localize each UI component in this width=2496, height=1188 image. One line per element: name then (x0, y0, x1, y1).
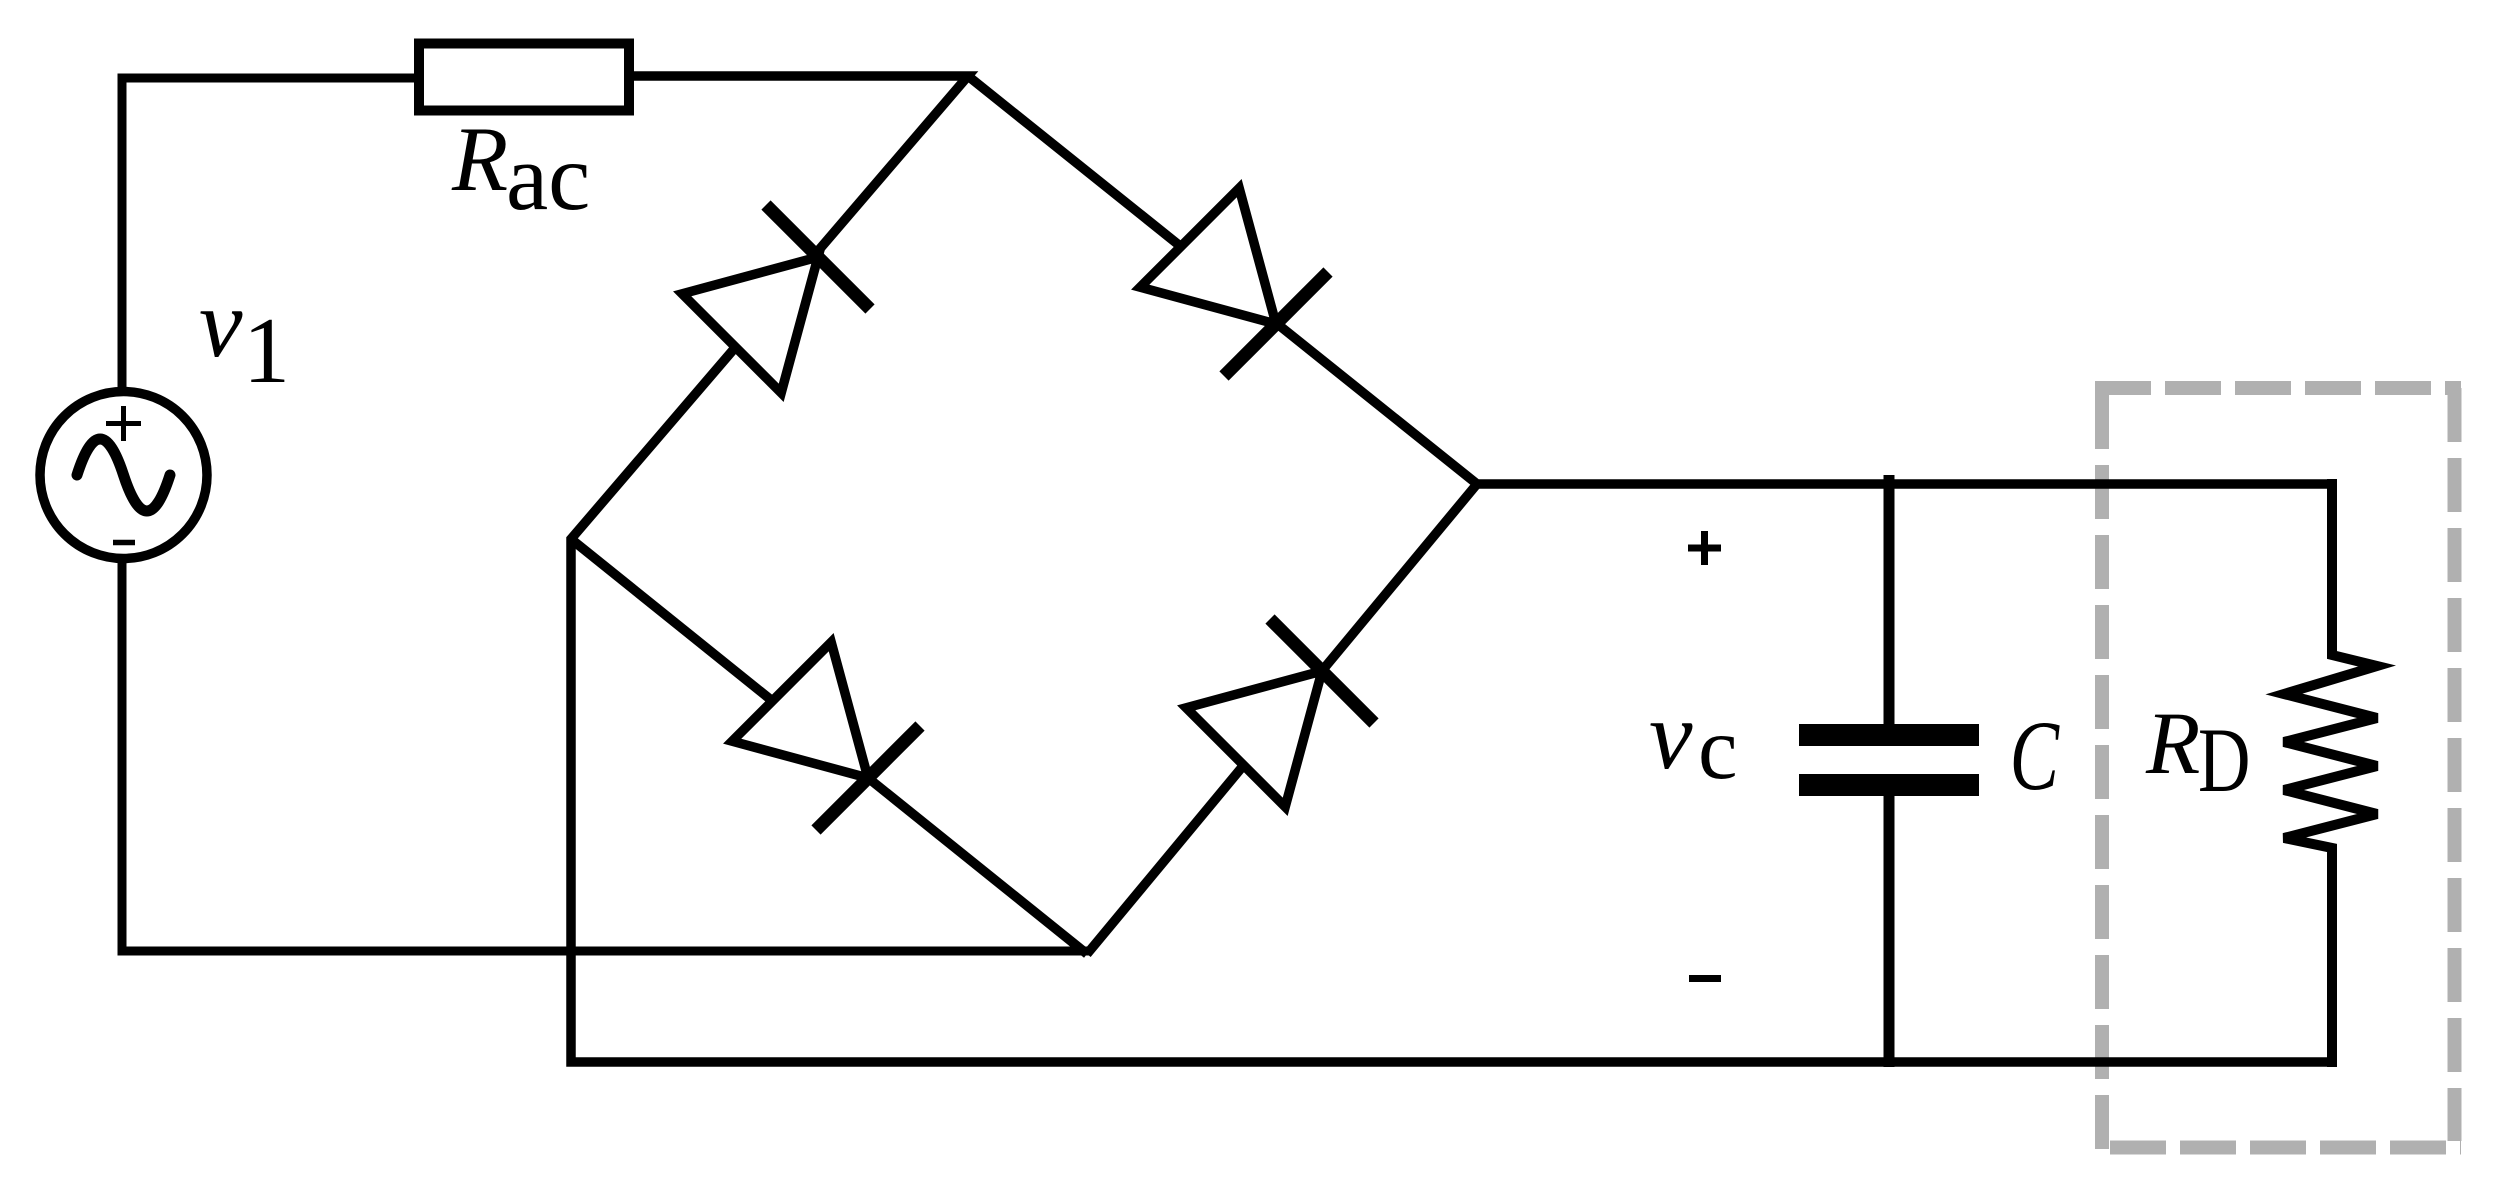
svg-text:R: R (451, 108, 508, 210)
svg-text:1: 1 (243, 299, 290, 403)
svg-text:D: D (2198, 709, 2250, 811)
svg-text:c: c (1698, 700, 1738, 798)
svg-text:ac: ac (506, 124, 590, 230)
svg-text:C: C (2010, 701, 2060, 811)
svg-text:R: R (2145, 695, 2200, 793)
svg-text:v: v (1649, 682, 1693, 790)
svg-text:v: v (199, 270, 243, 378)
